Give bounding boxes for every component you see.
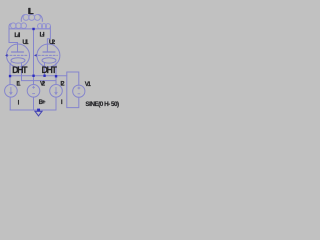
svg-text:I: I <box>61 99 63 106</box>
svg-text:I2: I2 <box>60 81 65 88</box>
svg-text:DHT: DHT <box>42 65 58 75</box>
svg-text:V2: V2 <box>40 81 46 88</box>
svg-text:DHT: DHT <box>12 65 28 75</box>
svg-text:LL: LL <box>28 7 34 16</box>
svg-text:L-II: L-II <box>14 32 20 39</box>
svg-text:U2: U2 <box>49 39 56 46</box>
svg-text:I: I <box>18 100 20 107</box>
svg-text:U1: U1 <box>22 39 29 46</box>
svg-text:V1: V1 <box>85 81 92 88</box>
svg-text:I1: I1 <box>16 81 21 88</box>
svg-text:L-I: L-I <box>40 32 45 39</box>
svg-text:SINE(0 H- 50): SINE(0 H- 50) <box>85 101 119 108</box>
svg-text:B+: B+ <box>39 99 46 106</box>
